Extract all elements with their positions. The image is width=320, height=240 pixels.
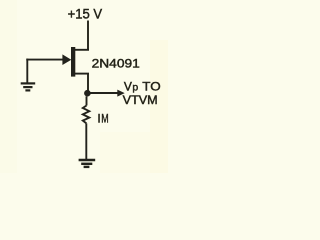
wire: gate down to ground — [26, 59, 28, 83]
svg-text:VTVM: VTVM — [123, 93, 158, 107]
node: source junction dot — [84, 90, 91, 97]
resistor R1 1M zigzag — [83, 106, 90, 124]
svg-text:2N4091: 2N4091 — [92, 57, 141, 71]
svg-text:TO: TO — [142, 80, 160, 94]
transistor Q1 gate arrowhead — [62, 54, 71, 65]
ground (gate) — [21, 83, 36, 90]
ground (bottom) — [79, 160, 96, 167]
wire: +15V supply down to drain — [87, 21, 89, 51]
svg-text:M: M — [101, 112, 108, 126]
wire: source down to junction — [87, 74, 89, 93]
wire: source lead horizontal — [74, 73, 90, 75]
wire: gate horizontal — [26, 59, 63, 61]
wire: output arrow line — [90, 92, 118, 94]
svg-text:+15 V: +15 V — [68, 6, 103, 22]
wire: junction down to resistor — [86, 96, 88, 105]
wire: drain lead horizontal — [74, 49, 90, 51]
svg-text:V: V — [124, 80, 132, 94]
svg-text:I: I — [97, 112, 100, 126]
paper background — [0, 0, 168, 173]
output arrowhead — [117, 90, 124, 97]
transistor Q1 2N4091 channel bar — [71, 47, 75, 77]
wire: resistor down to ground — [85, 123, 87, 159]
